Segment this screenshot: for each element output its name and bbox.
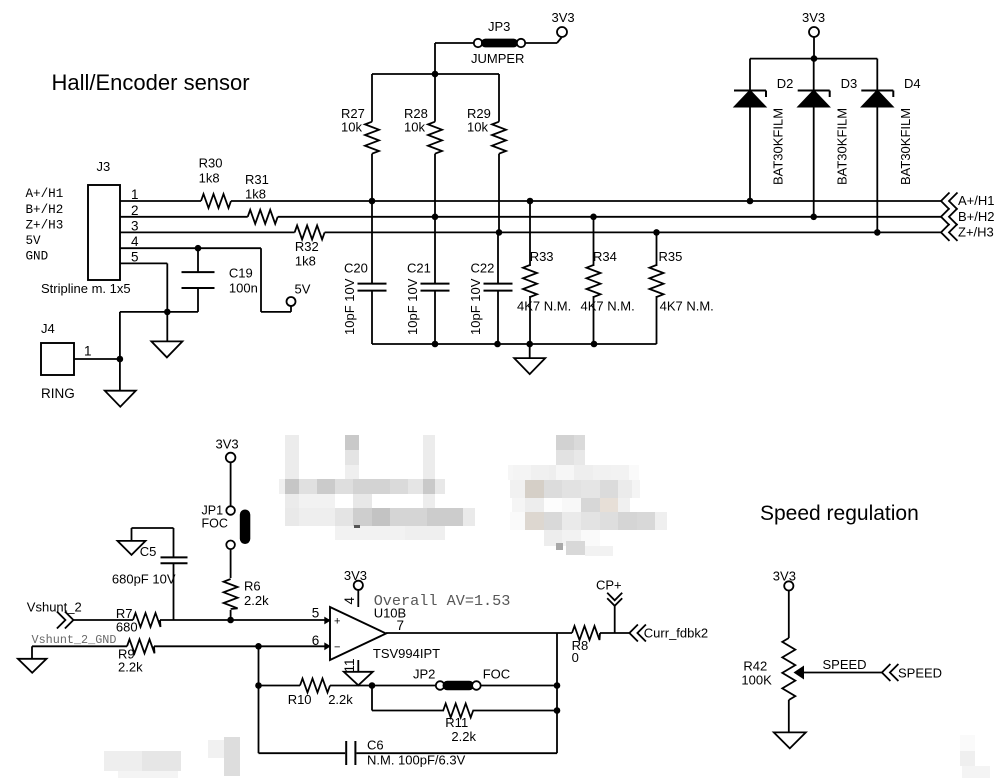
input port Vshunt_2 — [27, 600, 82, 629]
svg-text:2.2k: 2.2k — [451, 729, 476, 744]
capacitor C20 10pF 10V — [342, 201, 387, 344]
svg-text:D4: D4 — [904, 76, 921, 91]
svg-text:C6: C6 — [367, 738, 384, 753]
junction D4 on line3 — [874, 229, 881, 236]
svg-text:BAT30KFILM: BAT30KFILM — [835, 108, 850, 185]
svg-text:R10: R10 — [288, 692, 312, 707]
off-page connector SPEED — [882, 664, 942, 681]
svg-text:R32: R32 — [295, 239, 319, 254]
svg-text:3V3: 3V3 — [216, 437, 239, 452]
capacitor C5 680pF 10V — [112, 528, 188, 620]
svg-text:A+/H1: A+/H1 — [958, 193, 995, 208]
blurred watermark patch bottom left — [104, 751, 181, 778]
junction feedback JP2 — [554, 682, 561, 689]
resistor R11 2.2k — [443, 704, 476, 745]
junction D2 on line1 — [747, 198, 754, 205]
svg-text:JP3: JP3 — [488, 19, 510, 34]
capacitor C22 10pF 10V — [468, 232, 513, 344]
svg-text:5: 5 — [131, 249, 139, 264]
junction D3 on line2 — [810, 214, 817, 221]
svg-text:R31: R31 — [245, 172, 269, 187]
connector J4 box — [41, 343, 74, 375]
power port 3V3 at R42 — [773, 569, 796, 639]
svg-text:SPEED: SPEED — [898, 666, 942, 681]
potentiometer R42 100K — [741, 638, 804, 700]
wire +input line (pin5) — [73, 619, 330, 621]
svg-text:1k8: 1k8 — [245, 187, 266, 202]
junction -input to feedback — [255, 643, 262, 650]
svg-text:JP2: JP2 — [413, 667, 435, 682]
capacitor C6 N.M. 100pF/6.3V — [346, 738, 465, 768]
power port 3V3 top — [552, 10, 575, 37]
svg-text:R42: R42 — [743, 659, 767, 674]
ground symbol at R42 — [774, 700, 806, 748]
wire net Z+/H3 (line 3) — [120, 231, 941, 233]
svg-text:100K: 100K — [741, 673, 772, 688]
jumper JP2 FOC (closed) — [413, 667, 510, 691]
diode D2 BAT30KFILM — [734, 59, 793, 201]
blurred watermark region right — [508, 435, 667, 556]
svg-text:10pF 10V: 10pF 10V — [342, 278, 357, 335]
svg-text:Curr_fdbk2: Curr_fdbk2 — [644, 626, 708, 641]
wire R10 line — [259, 685, 436, 687]
resistor R28 10k — [404, 74, 442, 217]
junction R33 on line1 — [527, 198, 534, 205]
blurred watermark region left — [279, 435, 475, 540]
jumper JP3 — [471, 19, 525, 66]
svg-text:10k: 10k — [467, 120, 488, 135]
svg-text:Overall AV=1.53: Overall AV=1.53 — [374, 592, 511, 610]
svg-text:Hall/Encoder sensor: Hall/Encoder sensor — [52, 70, 250, 95]
svg-text:10pF 10V: 10pF 10V — [405, 278, 420, 335]
wire JP2 right to feedback — [481, 685, 557, 687]
resistor R30 — [199, 156, 231, 209]
wire pullup top rail — [372, 73, 499, 75]
svg-text:−: − — [334, 642, 340, 654]
off-page connector Z+/H3 — [941, 224, 994, 241]
svg-text:4K7 N.M.: 4K7 N.M. — [660, 299, 714, 314]
junction R34 on line2 — [590, 214, 597, 221]
resistor R35 4K7 N.M. — [650, 232, 714, 344]
svg-text:R33: R33 — [530, 249, 554, 264]
svg-text:2.2k: 2.2k — [244, 593, 269, 608]
blurred watermark patch bottom middle — [208, 737, 240, 776]
ground symbol at C5 — [118, 528, 146, 555]
svg-text:BAT30KFILM: BAT30KFILM — [898, 108, 913, 185]
svg-text:A+/H1: A+/H1 — [26, 187, 64, 201]
wire JP3 left to pullup rail — [435, 43, 474, 74]
svg-text:100n: 100n — [229, 281, 258, 296]
wire feedback vertical — [556, 633, 558, 753]
junction diode rail — [811, 55, 818, 62]
svg-text:Stripline m. 1x5: Stripline m. 1x5 — [41, 281, 131, 296]
wire net A+/H1 (line 1) — [120, 200, 941, 202]
off-page connector Curr_fdbk2 — [629, 625, 708, 642]
svg-text:TSV994IPT: TSV994IPT — [373, 646, 440, 661]
svg-text:1k8: 1k8 — [199, 171, 220, 186]
resistor R31 — [245, 172, 278, 224]
svg-text:D2: D2 — [777, 76, 794, 91]
svg-text:5V: 5V — [26, 234, 42, 248]
junction GND rail — [164, 309, 171, 316]
resistor R6 2.2k — [224, 549, 269, 620]
ground symbol near C19 — [151, 312, 182, 358]
svg-text:C20: C20 — [344, 261, 368, 276]
wire net 5V from J3 pin 4 — [120, 248, 291, 312]
wire -input feedback vertical — [258, 646, 260, 753]
capacitor C19 — [182, 248, 258, 312]
resistor R29 10k — [467, 74, 506, 232]
svg-text:680pF 10V: 680pF 10V — [112, 572, 176, 587]
svg-text:B+/H2: B+/H2 — [958, 209, 995, 224]
svg-text:10k: 10k — [341, 120, 362, 135]
svg-text:4: 4 — [342, 597, 357, 605]
svg-text:Z+/H3: Z+/H3 — [958, 224, 994, 239]
svg-text:RING: RING — [41, 386, 75, 401]
svg-text:10pF 10V: 10pF 10V — [468, 278, 483, 335]
J3 pin numbers 1-5 — [131, 187, 139, 264]
svg-text:5: 5 — [312, 606, 320, 621]
wire net B+/H2 (line 2) — [120, 216, 941, 218]
svg-text:2.2k: 2.2k — [328, 692, 353, 707]
svg-text:4K7 N.M.: 4K7 N.M. — [581, 299, 635, 314]
svg-text:10k: 10k — [404, 120, 425, 135]
input port CP+ — [596, 578, 622, 634]
svg-text:3V3: 3V3 — [773, 569, 796, 584]
resistor R10 2.2k — [288, 679, 354, 708]
diode D3 BAT30KFILM — [798, 59, 858, 217]
junction J4 node — [117, 356, 124, 363]
svg-text:+: + — [334, 616, 340, 628]
wire bottom rail of filter — [372, 343, 657, 345]
resistor R8 0 — [572, 626, 600, 665]
svg-text:R35: R35 — [659, 249, 683, 264]
svg-text:FOC: FOC — [202, 517, 228, 531]
junction pullup rail — [432, 71, 439, 78]
svg-text:5V: 5V — [295, 282, 311, 297]
resistor R32 — [295, 225, 325, 268]
svg-text:Z+/H3: Z+/H3 — [26, 218, 64, 232]
svg-text:J4: J4 — [41, 321, 55, 336]
svg-text:JUMPER: JUMPER — [471, 51, 524, 66]
junction R28 on line2 — [432, 214, 439, 221]
diode D4 BAT30KFILM — [861, 59, 920, 233]
svg-text:1: 1 — [84, 344, 92, 359]
junction R35 on line3 — [653, 229, 660, 236]
junction bottom rail C21 — [432, 341, 439, 348]
op-amp U10B TSV994IPT — [312, 597, 440, 673]
resistor R34 4K7 N.M. — [581, 217, 635, 344]
resistor R9 2.2k — [118, 639, 155, 674]
wire JP3 right to 3V3 — [525, 38, 561, 44]
off-page connector A+/H1 — [941, 193, 995, 210]
junction R10/R11 branch — [369, 682, 376, 689]
wire diode top rail — [750, 58, 877, 60]
svg-text:JP1: JP1 — [202, 504, 224, 518]
blurred watermark patch bottom right — [960, 735, 990, 778]
wire C6 line — [259, 752, 558, 754]
junction bottom rail R33 — [526, 341, 533, 348]
svg-text:N.M. 100pF/6.3V: N.M. 100pF/6.3V — [367, 753, 466, 768]
junction bottom rail C22 — [494, 341, 501, 348]
svg-text:R11: R11 — [445, 715, 468, 730]
junction on 5V net at C19 — [195, 245, 202, 252]
wire R42 wiper to SPEED — [804, 657, 882, 673]
wire R11 line — [372, 686, 557, 711]
svg-text:3V3: 3V3 — [344, 568, 367, 583]
junction R10 node — [255, 682, 262, 689]
ground symbol at J4 — [105, 359, 136, 407]
svg-text:6: 6 — [312, 633, 320, 648]
resistor R7 680 — [116, 606, 161, 635]
svg-text:2: 2 — [131, 203, 139, 218]
resistor R33 4K7 N.M. — [517, 201, 571, 344]
wire net GND from J3 pin 5 — [120, 263, 198, 359]
svg-text:680: 680 — [116, 620, 138, 635]
input port Vshunt_2_GND with ground — [18, 633, 117, 673]
svg-text:J3: J3 — [97, 159, 111, 174]
svg-text:0: 0 — [572, 650, 579, 665]
power port 3V3 at op-amp pin4 — [344, 568, 367, 607]
svg-text:R6: R6 — [244, 579, 261, 594]
svg-text:R34: R34 — [593, 249, 617, 264]
svg-text:4: 4 — [131, 234, 139, 249]
capacitor C21 10pF 10V — [405, 217, 450, 344]
svg-text:D3: D3 — [841, 76, 858, 91]
svg-text:1k8: 1k8 — [295, 254, 316, 269]
wire -input line (pin6) — [32, 645, 330, 647]
svg-text:FOC: FOC — [483, 667, 510, 682]
svg-text:3V3: 3V3 — [802, 10, 825, 25]
J3 pin name labels (mono) — [26, 187, 64, 263]
svg-text:3V3: 3V3 — [552, 10, 575, 25]
power port 5V — [287, 282, 311, 307]
wire op-amp output (pin7) — [386, 632, 629, 634]
junction R29 on line3 — [496, 229, 503, 236]
svg-text:Speed regulation: Speed regulation — [760, 502, 919, 525]
svg-text:1: 1 — [131, 187, 139, 202]
svg-text:GND: GND — [26, 249, 49, 263]
junction R27 on line1 — [369, 198, 376, 205]
resistor R27 10k — [341, 74, 379, 201]
svg-text:B+/H2: B+/H2 — [26, 203, 64, 217]
svg-text:Vshunt_2: Vshunt_2 — [27, 600, 82, 615]
svg-text:2.2k: 2.2k — [118, 660, 143, 675]
junction R6 to +input line — [227, 617, 234, 624]
wire J4 pin 1 — [74, 344, 120, 360]
power port 3V3 diodes — [802, 10, 825, 59]
svg-text:11: 11 — [342, 658, 357, 672]
jumper JP1 FOC (open) — [202, 462, 251, 549]
svg-text:SPEED: SPEED — [823, 657, 867, 672]
svg-text:C22: C22 — [471, 261, 495, 276]
svg-text:C19: C19 — [229, 266, 253, 281]
power port 3V3 at JP1 — [216, 437, 239, 463]
ground symbol filter rail — [514, 344, 545, 374]
junction bottom rail R34 — [591, 341, 598, 348]
svg-text:C21: C21 — [407, 261, 431, 276]
connector J3 box — [88, 185, 120, 280]
svg-text:Vshunt_2_GND: Vshunt_2_GND — [32, 633, 117, 647]
svg-text:BAT30KFILM: BAT30KFILM — [771, 108, 786, 185]
svg-text:CP+: CP+ — [596, 578, 622, 593]
ground symbol at op-amp pin11 — [344, 660, 373, 685]
svg-text:C5: C5 — [140, 544, 157, 559]
svg-text:R30: R30 — [199, 156, 223, 171]
junction feedback R11 — [554, 707, 561, 714]
off-page connector B+/H2 — [941, 208, 995, 225]
svg-text:4K7 N.M.: 4K7 N.M. — [517, 299, 571, 314]
svg-text:3: 3 — [131, 218, 139, 233]
